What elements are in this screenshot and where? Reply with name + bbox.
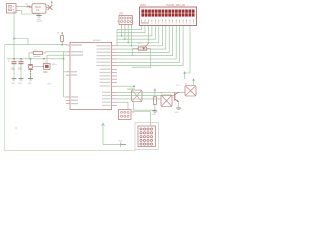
junction node rail/crystal	[30, 58, 32, 60]
diode D1	[26, 4, 33, 8]
wire bus LCD pin13	[117, 26, 183, 66]
wire bottom rail across	[5, 150, 136, 152]
ground under transistor	[175, 108, 182, 114]
pin stub IC1 GND	[38, 13, 40, 15]
wire X1 pin2 to GND net	[17, 10, 39, 14]
IC2 left pin labels	[71, 44, 83, 104]
connector X1 (DC power jack, top-left)	[7, 4, 17, 14]
X2 pin circles	[140, 128, 153, 145]
wire C1 to ground	[13, 64, 15, 79]
microcontroller IC2 MEGA8	[70, 39, 112, 110]
wire C2 to ground	[20, 64, 22, 79]
junction node gnd rail	[154, 109, 156, 111]
svg-text:16MHz: 16MHz	[51, 64, 57, 66]
wire bus LCD pin10	[117, 26, 173, 56]
crystal Q1 (vertical)	[28, 64, 33, 69]
junction node at (14,38.5)	[13, 38, 15, 40]
ground GND under IC1	[36, 16, 42, 22]
net arrow (serial)	[102, 123, 105, 145]
header JP1 (ISP, small)	[119, 110, 136, 120]
IC2 inner left labels upper	[0, 0, 1, 1]
wire serial to ground	[103, 144, 121, 146]
supply VCC arrow (top)	[51, 1, 53, 5]
svg-text:TUXGR_16X2_R2: TUXGR_16X2_R2	[166, 5, 186, 7]
connector X2 body	[138, 126, 156, 147]
supply VCC arrow backlight	[176, 71, 186, 87]
wire XTAL1 from IC	[46, 52, 67, 53]
svg-text:LCD1: LCD1	[140, 5, 147, 7]
transistor Q3	[174, 92, 179, 102]
ground mid bottom	[118, 140, 126, 146]
pin stub IC1 VI	[30, 6, 33, 8]
supply VCC arrow right	[192, 78, 195, 82]
capacitor C1	[8, 60, 17, 70]
wire into X2 from top	[150, 112, 152, 127]
IC2 right pin labels	[97, 45, 111, 106]
junction node rail/cap1	[13, 58, 15, 60]
svg-text:GND: GND	[18, 83, 23, 85]
wire IC to transistor base	[117, 95, 174, 97]
pin stub X1-1	[16, 5, 18, 7]
wire rail to cap2	[20, 59, 22, 62]
svg-text:GND: GND	[37, 19, 42, 21]
SV1 pin circles	[121, 17, 133, 23]
wire LCD pin3 to trimmer	[147, 26, 149, 44]
wire bus LCD pin4	[117, 26, 152, 36]
wire bus LCD pin11	[117, 26, 176, 60]
wire IC to LED1 net	[117, 85, 134, 87]
pin stub R2 left	[30, 52, 33, 54]
pin stub SP1 left	[182, 91, 185, 93]
wire bus LCD pin8	[117, 26, 166, 50]
wire trimmer right down and left	[132, 49, 151, 68]
supply VCC arrow above R1	[61, 32, 63, 35]
SV1 left pin stub	[117, 20, 119, 22]
svg-text:JP1: JP1	[132, 113, 135, 115]
wire IC to pad2	[117, 98, 159, 100]
svg-text:C1: C1	[8, 60, 10, 62]
junction node rail/Q2	[43, 58, 45, 60]
wire bus LCD pin1	[117, 26, 142, 30]
resistor R4 vertical with VCC	[153, 88, 156, 110]
svg-text:GND: GND	[118, 140, 123, 142]
svg-text:C2: C2	[17, 60, 19, 62]
wire IC to buzzer net	[117, 91, 182, 93]
pin stub S1 left	[159, 98, 162, 100]
wire long left rail down	[4, 45, 6, 151]
wire SV1-1 down to bus	[121, 27, 123, 36]
svg-text:78L05: 78L05	[35, 7, 42, 9]
ground under C1	[11, 79, 16, 85]
wire bus LCD pin9	[117, 26, 169, 53]
svg-text:D1: D1	[26, 4, 28, 6]
resistor R2 1M (horizontal)	[33, 50, 42, 57]
wire bus LCD pin2	[117, 26, 145, 33]
svg-text:GND: GND	[11, 83, 16, 85]
pin stub R2 right	[43, 52, 46, 54]
svg-text:MEGA8-P: MEGA8-P	[93, 39, 102, 42]
wire SV1-2 down to bus	[124, 27, 126, 40]
svg-text:10k: 10k	[57, 32, 60, 34]
junction nodes SV1/bus	[121, 35, 123, 37]
pin stub trimmer right	[147, 48, 149, 50]
wire rail to crystal column	[30, 59, 32, 64]
voltage regulator IC1 7805	[32, 4, 46, 13]
pin stub trimmer left	[136, 48, 138, 50]
svg-text:Q2: Q2	[44, 62, 47, 64]
junction node R1/reset wire	[61, 44, 63, 46]
resistor R1 (reset pull-up, vertical)	[57, 32, 64, 44]
LCD character grid	[141, 10, 194, 17]
pin stub IC1 VO	[46, 6, 49, 8]
junction cross at IC1 output	[48, 5, 53, 10]
wire SV1-3 down to bus	[127, 27, 129, 43]
pin stub X1-2	[16, 9, 18, 11]
SV1 bottom pin stubs	[122, 25, 132, 27]
svg-text:GND: GND	[175, 112, 180, 114]
wire X1 to diode D1	[17, 5, 27, 7]
svg-text:GND: GND	[152, 114, 157, 116]
svg-text:GND: GND	[28, 83, 33, 85]
IC2 right pin stubs	[112, 46, 117, 106]
svg-text:1M: 1M	[34, 50, 37, 52]
wire trimmer left down	[133, 49, 136, 56]
wire reset net horizontal into IC pin	[5, 44, 68, 46]
wire XTAL2 from IC to crystal box	[47, 55, 67, 63]
svg-text:GND: GND	[47, 84, 52, 86]
LCD left pin detail	[141, 22, 149, 23]
ground right cluster	[152, 111, 158, 116]
wire IC to pad3	[117, 102, 128, 109]
net label marks near LED wire	[127, 89, 133, 90]
ground under C2	[18, 79, 23, 85]
header connector SV1 (top middle)	[119, 14, 132, 25]
capacitor C2	[17, 60, 24, 70]
wire X1 rail down continuation	[13, 39, 15, 62]
wire LCD pin15 backlight	[185, 26, 191, 74]
ground under crystal	[28, 79, 33, 85]
connector X2 (bottom, with outer outline)	[135, 123, 159, 150]
LCD pin marks row	[142, 20, 194, 22]
svg-text:G10K: G10K	[138, 43, 144, 45]
wire SP1 top to VCC	[193, 83, 195, 86]
wire R2 left down to rail	[29, 53, 30, 59]
wire left lower pin	[64, 72, 68, 97]
junction node rail/cap2	[20, 58, 22, 60]
wire bus LCD pin12	[117, 26, 180, 63]
IC2 left pin stubs	[66, 45, 70, 104]
wire JP1 to X2	[131, 111, 151, 113]
wire bus LCD pin6	[117, 26, 159, 43]
grid cross mark	[15, 127, 18, 130]
crystal section: wire rail	[7, 58, 64, 60]
wire bus LCD pin7	[117, 26, 162, 46]
wire LED1 bottom to gnd rail	[134, 102, 156, 111]
LCD display LCD1 TUXGR_16X2_R2	[140, 5, 197, 26]
svg-text:VCC: VCC	[176, 85, 181, 87]
wire LED1 top	[133, 86, 135, 90]
wire bus riser at IC right	[116, 29, 118, 46]
wire bus LCD pin5	[117, 26, 155, 40]
wire transistor emitter down	[178, 102, 180, 108]
wire crystal to ground	[30, 70, 32, 79]
wire left AVCC column	[64, 52, 68, 72]
wire X1 bottom pin down and across to reset net	[14, 13, 28, 45]
svg-text:16M: 16M	[43, 72, 48, 74]
crystal Q2 16MHz (box)	[33, 62, 57, 75]
trimmer R3 (LCD contrast)	[138, 43, 150, 55]
svg-text:TRIM: TRIM	[138, 53, 143, 55]
wire SV1-4 down to bus	[131, 27, 133, 46]
